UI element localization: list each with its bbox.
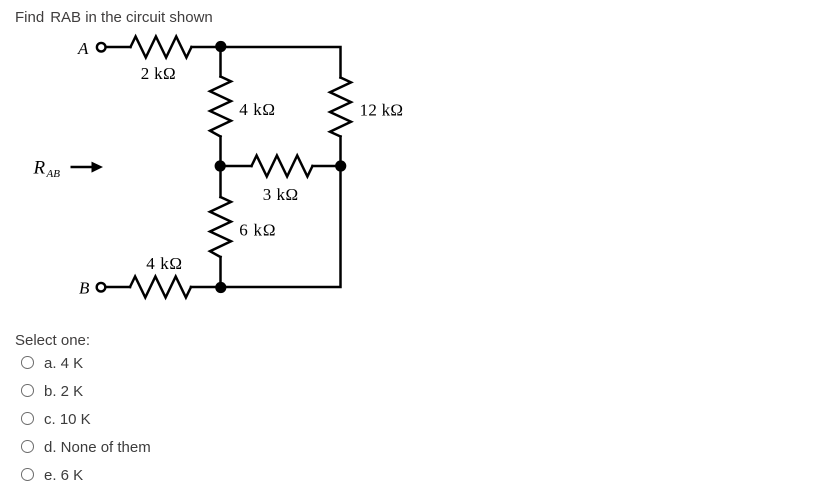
terminal A (open circle) [97, 43, 106, 52]
svg-text:12 kΩ: 12 kΩ [360, 100, 404, 119]
wire: 12k bottom to mid-right node [339, 137, 342, 167]
option a [0, 354, 400, 374]
wire: 4k bottom to mid-left node [219, 137, 222, 167]
wire: 4k resistor to bottom node [191, 286, 221, 289]
title: question text [15, 8, 213, 27]
svg-text:2 kΩ: 2 kΩ [141, 64, 176, 83]
wire: mid-right node down and bottom rail [221, 166, 341, 287]
circuit schematic [0, 0, 430, 310]
arrow: RAB pointing to circuit [71, 166, 92, 169]
option b [0, 382, 400, 402]
resistor 4 kOhm (horizontal, B lead) [130, 277, 191, 298]
option c [0, 410, 400, 430]
resistor 12 kOhm (vertical, right branch) [330, 78, 351, 137]
svg-text:A: A [77, 39, 89, 58]
wire: mid-left node down to 6k resistor [219, 166, 222, 197]
option d [0, 438, 400, 458]
node: mid-left junction [215, 160, 226, 171]
svg-text:R: R [33, 158, 46, 179]
terminal B (open circle) [97, 283, 106, 292]
svg-text:4 kΩ: 4 kΩ [146, 254, 182, 273]
prompt: Select one [15, 334, 90, 347]
resistor 2 kOhm (horizontal, A lead) [131, 37, 192, 58]
option e [0, 466, 400, 486]
wire: top node down to 4k resistor [219, 47, 222, 77]
svg-text:4 kΩ: 4 kΩ [239, 100, 275, 119]
node: mid-right junction [335, 160, 346, 171]
wire: 6k bottom to bottom node [219, 257, 222, 287]
svg-text:B: B [79, 278, 90, 297]
node: top junction [215, 41, 226, 52]
node: bottom junction [215, 282, 226, 293]
wire: mid-left node to 3k resistor [221, 165, 252, 168]
svg-text:AB: AB [46, 168, 61, 180]
resistor 3 kOhm (horizontal, middle) [252, 156, 313, 177]
resistor 4 kOhm (vertical, upper middle) [210, 77, 231, 137]
wire: terminal B to resistor 4k (bottom) [106, 286, 131, 289]
wire: 3k resistor to mid-right node [313, 165, 341, 168]
wire: 2k resistor to top node and top rail to right corner [192, 47, 341, 78]
svg-text:6 kΩ: 6 kΩ [239, 220, 276, 239]
resistor 6 kOhm (vertical, lower middle) [210, 197, 231, 257]
svg-text:3 kΩ: 3 kΩ [263, 185, 299, 204]
wire: terminal A to resistor 2k [106, 46, 131, 49]
